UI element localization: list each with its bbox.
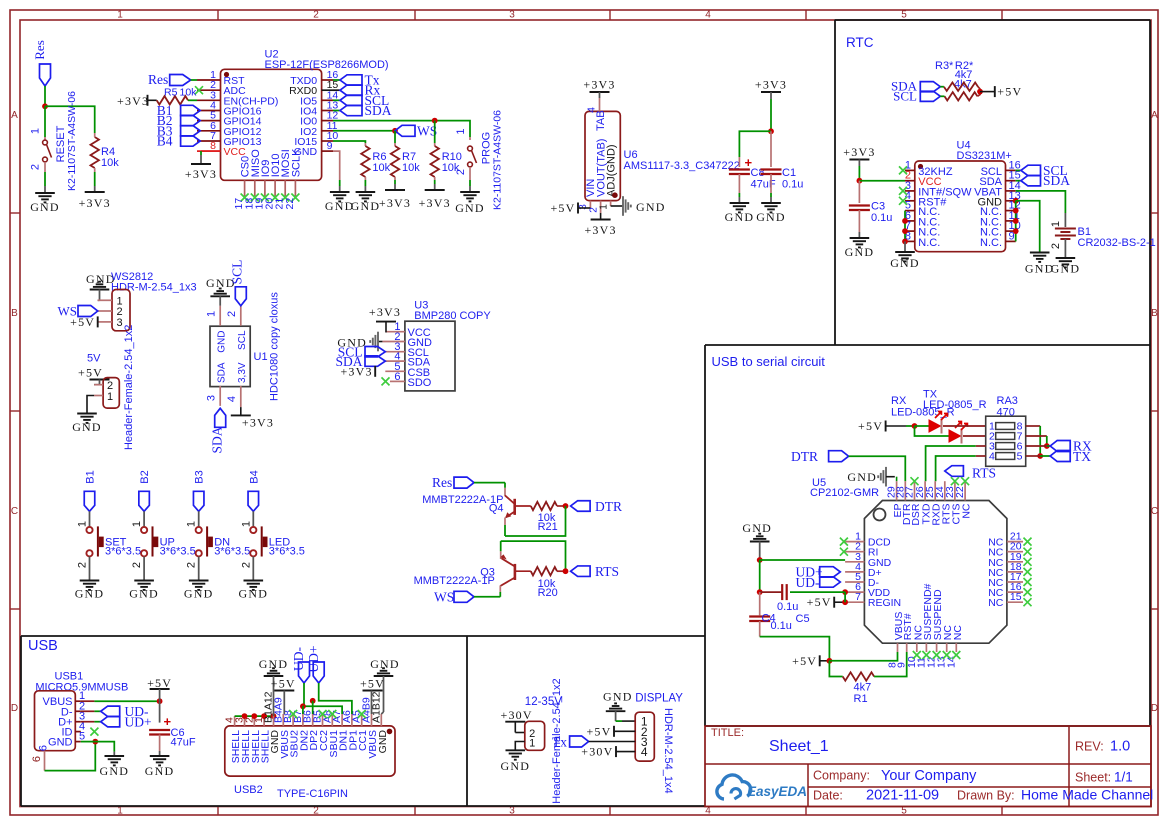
svg-text:EasyEDA: EasyEDA	[747, 784, 807, 799]
svg-text:10k: 10k	[372, 162, 390, 174]
svg-text:22: 22	[954, 486, 966, 498]
svg-text:2: 2	[77, 562, 89, 568]
svg-text:Your Company: Your Company	[881, 768, 977, 784]
svg-text:GND: GND	[756, 210, 786, 224]
svg-text:10k: 10k	[402, 162, 420, 174]
svg-text:C: C	[11, 506, 18, 517]
svg-text:HDC1080 copy cloxus: HDC1080 copy cloxus	[269, 292, 281, 401]
svg-text:Header-Female-2.54_1x2: Header-Female-2.54_1x2	[123, 325, 135, 450]
svg-text:RTS: RTS	[972, 466, 996, 481]
svg-text:GND: GND	[129, 587, 159, 601]
svg-text:4: 4	[641, 745, 648, 759]
svg-text:Home Made Channel: Home Made Channel	[1021, 787, 1153, 803]
svg-text:+5V: +5V	[550, 201, 575, 215]
svg-text:C1: C1	[782, 167, 796, 179]
svg-text:+3V3: +3V3	[843, 145, 875, 159]
svg-text:SCL: SCL	[893, 88, 917, 103]
svg-text:GND: GND	[500, 759, 530, 773]
svg-text:3: 3	[206, 395, 218, 401]
svg-text:SCL: SCL	[237, 330, 248, 350]
svg-text:47uF: 47uF	[171, 737, 196, 749]
svg-text:C3: C3	[871, 201, 885, 213]
svg-text:10k: 10k	[180, 87, 198, 99]
svg-text:1: 1	[186, 521, 198, 527]
svg-text:GND: GND	[238, 587, 268, 601]
svg-text:3*6*3.5: 3*6*3.5	[269, 546, 305, 558]
svg-text:1: 1	[117, 10, 123, 21]
svg-text:TAB: TAB	[595, 110, 607, 131]
svg-text:B: B	[1151, 308, 1158, 319]
svg-text:DS3231M+: DS3231M+	[957, 150, 1012, 162]
svg-text:USB2: USB2	[234, 784, 263, 796]
svg-text:N.C.: N.C.	[918, 237, 940, 249]
svg-text:SDO: SDO	[408, 377, 432, 389]
svg-text:N.C.: N.C.	[980, 237, 1002, 249]
svg-text:+3V3: +3V3	[340, 364, 372, 378]
svg-text:2: 2	[30, 164, 42, 170]
svg-text:TITLE:: TITLE:	[711, 727, 744, 739]
svg-text:1: 1	[30, 128, 42, 134]
svg-text:2: 2	[455, 169, 467, 175]
svg-text:2: 2	[313, 806, 319, 817]
svg-text:7: 7	[855, 591, 861, 603]
svg-text:1.0: 1.0	[1110, 739, 1130, 755]
svg-text:B2: B2	[139, 470, 151, 483]
svg-text:GND: GND	[30, 200, 60, 214]
svg-text:RTS: RTS	[595, 564, 619, 579]
svg-text:MMBT2222A-1P: MMBT2222A-1P	[414, 575, 495, 587]
svg-text:B4: B4	[248, 470, 260, 483]
svg-text:C5: C5	[796, 613, 810, 625]
svg-text:DTR: DTR	[791, 449, 818, 464]
svg-text:CP2102-GMR: CP2102-GMR	[810, 487, 879, 499]
svg-text:1/1: 1/1	[1114, 770, 1133, 785]
svg-text:AMS1117-3.3_C347222: AMS1117-3.3_C347222	[624, 160, 740, 172]
svg-text:GND: GND	[351, 199, 381, 213]
svg-text:2: 2	[240, 562, 252, 568]
svg-text:Res: Res	[32, 40, 47, 60]
svg-text:Res: Res	[148, 72, 168, 87]
svg-text:14: 14	[945, 656, 957, 668]
svg-text:HDR-M-2.54_1x4: HDR-M-2.54_1x4	[662, 708, 674, 794]
svg-text:A: A	[1151, 110, 1158, 121]
svg-text:1: 1	[455, 128, 467, 134]
svg-text:Tx: Tx	[552, 735, 567, 750]
svg-text:4: 4	[705, 10, 711, 21]
svg-text:3: 3	[509, 806, 515, 817]
svg-text:10k: 10k	[101, 157, 119, 169]
svg-text:GND: GND	[48, 737, 73, 749]
svg-text:+3V3: +3V3	[379, 196, 411, 210]
svg-text:2: 2	[186, 562, 198, 568]
svg-text:K2-1107ST-A4SW-06: K2-1107ST-A4SW-06	[66, 91, 78, 191]
svg-text:Company:: Company:	[813, 769, 870, 783]
svg-text:+5V: +5V	[792, 654, 817, 668]
svg-text:CR2032-BS-2-1: CR2032-BS-2-1	[1078, 237, 1156, 249]
svg-text:TX: TX	[1073, 449, 1091, 464]
svg-text:GND: GND	[603, 690, 633, 704]
svg-text:GND: GND	[725, 210, 755, 224]
svg-text:2: 2	[1050, 243, 1062, 249]
svg-text:R21: R21	[538, 521, 558, 533]
svg-text:1: 1	[599, 204, 610, 210]
svg-text:SCL: SCL	[230, 260, 245, 285]
svg-text:GND: GND	[370, 657, 400, 671]
svg-text:Date:: Date:	[813, 789, 843, 803]
svg-text:5: 5	[1017, 451, 1023, 463]
svg-text:GND: GND	[217, 331, 228, 353]
svg-text:RA3: RA3	[997, 395, 1018, 407]
svg-text:+5V: +5V	[271, 677, 296, 691]
svg-text:4: 4	[226, 396, 238, 402]
svg-text:3: 3	[578, 204, 589, 210]
svg-text:2: 2	[226, 311, 238, 317]
svg-text:DTR: DTR	[595, 499, 622, 514]
svg-text:2: 2	[131, 562, 143, 568]
svg-text:3*6*3.5: 3*6*3.5	[160, 546, 196, 558]
svg-text:GND: GND	[1025, 262, 1055, 276]
svg-text:2: 2	[313, 10, 319, 21]
svg-text:9: 9	[327, 140, 333, 152]
svg-text:1: 1	[107, 391, 113, 403]
svg-text:R20: R20	[538, 587, 558, 599]
svg-text:22: 22	[284, 198, 296, 210]
svg-text:USB: USB	[28, 638, 58, 654]
svg-text:GND: GND	[75, 587, 105, 601]
svg-text:GND: GND	[99, 764, 129, 778]
svg-text:GND: GND	[72, 420, 102, 434]
svg-text:REGIN: REGIN	[868, 597, 901, 609]
svg-text:NC: NC	[961, 503, 973, 519]
svg-text:A: A	[11, 110, 18, 121]
svg-text:3,3V: 3,3V	[237, 362, 248, 383]
svg-text:+5V: +5V	[147, 676, 172, 690]
svg-text:D: D	[11, 703, 18, 714]
svg-text:GND: GND	[455, 201, 485, 215]
svg-text:15: 15	[1010, 591, 1022, 603]
svg-text:SDA: SDA	[217, 362, 228, 383]
svg-text:1: 1	[240, 521, 252, 527]
svg-text:DISPLAY: DISPLAY	[635, 693, 683, 705]
svg-text:NC: NC	[988, 597, 1004, 609]
svg-text:4k7: 4k7	[854, 682, 872, 694]
svg-text:+5V: +5V	[586, 724, 611, 738]
svg-text:+3V3: +3V3	[117, 94, 149, 108]
svg-text:GND: GND	[742, 521, 772, 535]
svg-text:GND: GND	[377, 730, 389, 754]
svg-text:ADJ(GND): ADJ(GND)	[606, 144, 618, 197]
svg-text:RTC: RTC	[846, 35, 874, 50]
svg-text:3: 3	[509, 10, 515, 21]
svg-text:+30V: +30V	[501, 708, 533, 722]
svg-text:+3V3: +3V3	[584, 223, 616, 237]
svg-text:3: 3	[117, 317, 123, 329]
svg-text:GND: GND	[845, 245, 875, 259]
svg-text:B3: B3	[194, 470, 206, 483]
svg-text:Res: Res	[432, 475, 452, 490]
svg-text:+3V3: +3V3	[242, 416, 274, 430]
svg-text:UD+: UD+	[125, 715, 152, 730]
svg-text:+5V: +5V	[997, 85, 1022, 99]
svg-text:5V: 5V	[87, 353, 101, 365]
svg-text:47uF: 47uF	[751, 179, 776, 191]
svg-text:UD-: UD-	[796, 575, 820, 590]
svg-text:SDA: SDA	[365, 103, 392, 118]
svg-text:SCLK: SCLK	[290, 148, 302, 177]
svg-text:B1: B1	[85, 470, 97, 483]
svg-text:WS: WS	[434, 590, 454, 605]
svg-text:+3V3: +3V3	[755, 78, 787, 92]
svg-text:TYPE-C16PIN: TYPE-C16PIN	[277, 788, 348, 800]
svg-text:Drawn By:: Drawn By:	[957, 789, 1015, 803]
svg-text:B: B	[11, 308, 18, 319]
svg-text:GND: GND	[890, 256, 920, 270]
svg-text:+3V3: +3V3	[583, 78, 615, 92]
svg-text:GND: GND	[145, 764, 175, 778]
svg-text:U1: U1	[254, 351, 268, 363]
svg-text:1: 1	[206, 311, 218, 317]
svg-text:6: 6	[31, 756, 43, 762]
svg-text:+5V: +5V	[807, 595, 832, 609]
svg-text:6: 6	[38, 745, 50, 751]
svg-text:1: 1	[529, 738, 535, 750]
svg-text:+5V: +5V	[78, 366, 103, 380]
svg-text:+3V3: +3V3	[79, 196, 111, 210]
svg-text:+5V: +5V	[70, 315, 95, 329]
svg-text:SDA: SDA	[210, 426, 225, 453]
svg-text:B4: B4	[157, 134, 173, 149]
svg-text:REV:: REV:	[1075, 740, 1104, 754]
svg-text:+5V: +5V	[360, 677, 385, 691]
svg-text:0.1u: 0.1u	[777, 601, 798, 613]
svg-text:0.1u: 0.1u	[771, 620, 792, 632]
svg-text:+5V: +5V	[858, 419, 883, 433]
svg-text:RX: RX	[891, 395, 907, 407]
svg-text:SDA: SDA	[1043, 173, 1070, 188]
svg-text:2021-11-09: 2021-11-09	[866, 788, 939, 804]
svg-text:GND: GND	[184, 587, 214, 601]
svg-text:4: 4	[989, 451, 995, 463]
svg-text:USB to serial circuit: USB to serial circuit	[712, 354, 826, 369]
svg-text:+3V3: +3V3	[185, 167, 217, 181]
svg-text:5: 5	[901, 10, 907, 21]
svg-text:1: 1	[131, 521, 143, 527]
svg-text:GND: GND	[1051, 262, 1081, 276]
svg-text:K2-1107ST-A4SW-06: K2-1107ST-A4SW-06	[492, 110, 504, 210]
svg-text:R1: R1	[854, 693, 868, 705]
svg-text:Q4: Q4	[489, 503, 504, 515]
svg-text:+3V3: +3V3	[419, 196, 451, 210]
svg-text:R5: R5	[164, 87, 178, 99]
svg-text:1: 1	[77, 521, 89, 527]
svg-text:Sheet:: Sheet:	[1075, 771, 1111, 785]
svg-text:D: D	[1151, 703, 1158, 714]
svg-text:BMP280 COPY: BMP280 COPY	[414, 310, 491, 322]
svg-text:GND: GND	[636, 200, 666, 214]
svg-text:GND: GND	[847, 470, 877, 484]
svg-text:+30V: +30V	[581, 745, 613, 759]
svg-text:0.1u: 0.1u	[782, 179, 803, 191]
svg-text:LED-0805_R: LED-0805_R	[923, 399, 987, 411]
svg-text:C: C	[1151, 506, 1158, 517]
svg-text:3*6*3.5: 3*6*3.5	[105, 546, 141, 558]
svg-text:+3V3: +3V3	[369, 305, 401, 319]
svg-text:R3*: R3*	[935, 60, 954, 72]
svg-text:HDR-M-2.54_1x3: HDR-M-2.54_1x3	[111, 282, 197, 294]
svg-text:1: 1	[117, 806, 123, 817]
svg-text:NC: NC	[952, 625, 964, 641]
svg-text:0.1u: 0.1u	[871, 212, 892, 224]
svg-text:1: 1	[1050, 221, 1062, 227]
svg-text:3*6*3.5: 3*6*3.5	[214, 546, 250, 558]
svg-text:Sheet_1: Sheet_1	[769, 738, 829, 755]
